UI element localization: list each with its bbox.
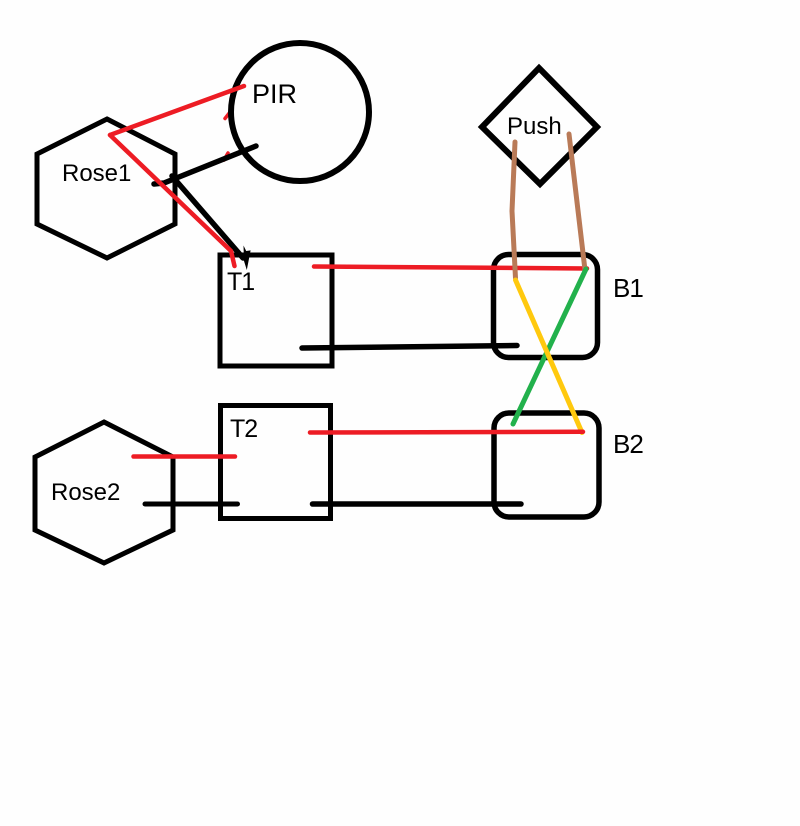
svg-text:Push: Push	[507, 113, 562, 140]
svg-text:T1: T1	[227, 268, 254, 296]
svg-text:Rose2: Rose2	[51, 479, 120, 506]
svg-text:B1: B1	[613, 273, 643, 303]
svg-text:T2: T2	[230, 415, 257, 443]
svg-text:PIR: PIR	[252, 79, 297, 109]
svg-text:B2: B2	[613, 429, 643, 459]
svg-text:Rose1: Rose1	[62, 160, 131, 187]
